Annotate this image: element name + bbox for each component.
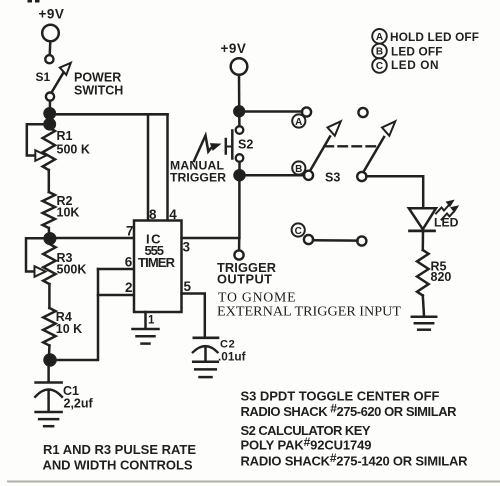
node: S3 pole2 upper contact (358, 108, 367, 117)
LED D1 (409, 208, 436, 231)
svg-text:+9V: +9V (221, 41, 247, 56)
svg-text:SWITCH: SWITCH (74, 84, 123, 98)
ground C2 (193, 362, 218, 377)
resistor R3 (pot) (43, 244, 55, 284)
wire (48, 101, 51, 124)
ground pin 1 (133, 329, 159, 344)
wire (238, 114, 241, 126)
svg-text:500K: 500K (57, 263, 87, 277)
resistor R5 (417, 250, 429, 296)
junction node supply (45, 108, 55, 118)
svg-text:OUTPUT: OUTPUT (217, 272, 272, 287)
junction node S2 bottom (235, 170, 245, 180)
svg-text:R1: R1 (57, 129, 73, 143)
capacitor C2 (193, 338, 218, 362)
legend node B (372, 44, 387, 59)
cut-off marks top edge (28, 0, 40, 3)
svg-text:+9V: +9V (39, 7, 65, 22)
svg-text:S3: S3 (325, 171, 340, 185)
svg-text:500 K: 500 K (57, 143, 90, 157)
scan artifact line bottom (8, 481, 500, 483)
svg-text:10 K: 10 K (56, 322, 82, 336)
svg-text:3: 3 (183, 240, 191, 255)
junction node R2/R3 (45, 233, 56, 244)
pot R1 arrow (35, 150, 46, 161)
node: S2 contact top (236, 126, 244, 134)
node label C (292, 223, 305, 237)
wire (422, 231, 425, 250)
wire +9V rail to pins 8,4 (50, 113, 168, 116)
pot R1 wiper loop (27, 124, 45, 155)
svg-text:C: C (295, 226, 302, 237)
svg-text:1: 1 (148, 315, 155, 327)
svg-text:POWER: POWER (74, 71, 121, 85)
node: C row right contact (357, 236, 366, 245)
wire (48, 284, 51, 308)
svg-text:5: 5 (184, 279, 192, 294)
svg-text:POLY PAK#92CU1749: POLY PAK#92CU1749 (241, 435, 372, 453)
svg-text:7: 7 (126, 224, 134, 239)
wire (238, 75, 241, 108)
svg-text:.01uf: .01uf (218, 350, 246, 364)
pot R3 arrow (35, 266, 46, 277)
svg-text:A: A (295, 117, 302, 128)
svg-text:S2: S2 (238, 138, 253, 152)
switch S1 arm (52, 63, 71, 93)
wire pin 4 (166, 114, 169, 220)
terminal +9V middle (231, 58, 248, 75)
svg-text:B: B (376, 47, 383, 58)
wire pin 1 (144, 312, 147, 329)
wire pin 5 to C2 (182, 294, 205, 338)
pot R3 wiper loop (26, 238, 45, 271)
svg-text:LED OFF: LED OFF (391, 45, 443, 59)
wire pin 3 (182, 237, 240, 240)
svg-text:820: 820 (431, 270, 452, 284)
wire node A row (239, 110, 302, 113)
node A terminal (302, 107, 311, 116)
resistor R1 (pot) (43, 128, 55, 171)
wire pin 6 (98, 268, 134, 271)
wire pin 8 (147, 114, 150, 220)
svg-text:6: 6 (125, 255, 133, 270)
ground R5 (412, 317, 436, 330)
terminal trigger output (234, 250, 243, 259)
pushbutton S2 actuator (226, 131, 233, 159)
wire pin 2 (98, 294, 134, 297)
svg-text:B: B (295, 164, 302, 175)
svg-text:AND WIDTH CONTROLS: AND WIDTH CONTROLS (43, 458, 193, 473)
node: S2 contact bottom (236, 154, 244, 162)
wire pin 7 (50, 237, 134, 240)
svg-text:EXTERNAL TRIGGER INPUT: EXTERNAL TRIGGER INPUT (217, 304, 402, 319)
capacitor C1 (35, 383, 62, 412)
wire C1 (47, 366, 50, 382)
junction node S2 top (234, 106, 244, 116)
wire (48, 346, 51, 361)
svg-text:RADIO SHACK#275-1420 OR SIMILA: RADIO SHACK#275-1420 OR SIMILAR (241, 451, 469, 469)
junction node R1 top (45, 119, 55, 129)
svg-text:2: 2 (125, 280, 133, 295)
switch S3 pole 2 arm (364, 121, 395, 171)
manual trigger arrow (194, 136, 222, 162)
svg-text:HOLD LED OFF: HOLD LED OFF (390, 30, 479, 44)
svg-text:TRIGGER: TRIGGER (170, 171, 226, 185)
wire (48, 170, 51, 192)
svg-text:R1 AND R3 PULSE RATE: R1 AND R3 PULSE RATE (43, 442, 196, 457)
wire C row (313, 239, 358, 242)
svg-text:TO GNOME: TO GNOME (218, 290, 296, 305)
wire (48, 228, 51, 239)
wire S2 to pin3 (238, 175, 241, 238)
label POWER SWITCH (74, 71, 123, 98)
svg-text:4: 4 (169, 207, 177, 222)
node B terminal / pole 1 pivot (304, 171, 313, 180)
svg-text:10K: 10K (57, 206, 80, 220)
junction node R4/C1 (45, 355, 56, 366)
svg-text:S3 DPDT TOGGLE CENTER OFF: S3 DPDT TOGGLE CENTER OFF (241, 389, 440, 404)
wire S3 to LED (366, 176, 423, 207)
ground C1 (36, 412, 62, 426)
wire trigger output stub (238, 238, 241, 250)
wire (238, 162, 241, 172)
node: S3 pole 2 pivot (357, 172, 366, 181)
svg-text:S1: S1 (36, 70, 51, 84)
resistor R2 (43, 192, 55, 228)
LED light arrows (436, 200, 459, 220)
node C terminal (304, 235, 313, 244)
terminal +9V left (42, 25, 59, 42)
IC U1 555 timer box (134, 221, 182, 313)
svg-text:A: A (376, 32, 383, 43)
resistor R4 (43, 308, 55, 346)
svg-text:2,2uf: 2,2uf (64, 397, 94, 411)
svg-text:TIMER: TIMER (138, 255, 176, 270)
svg-text:C: C (376, 61, 383, 72)
wire (48, 41, 51, 55)
wire (423, 296, 424, 317)
svg-text:LED: LED (434, 216, 459, 230)
node: switch S1 bottom contact (46, 93, 54, 101)
svg-text:8: 8 (149, 207, 157, 222)
node label B (292, 161, 305, 175)
svg-text:LED ON: LED ON (391, 58, 439, 72)
node label A (292, 114, 305, 128)
legend node A (372, 29, 387, 44)
wire junction to pins 6,2 riser (50, 269, 98, 360)
svg-text:RADIO SHACK #275-620 OR SIMILA: RADIO SHACK #275-620 OR SIMILAR (241, 402, 458, 420)
legend node C (372, 58, 387, 73)
node: switch S1 top contact (45, 55, 53, 63)
switch S3 pole 1 arm (311, 121, 341, 170)
wire node B row (240, 174, 305, 177)
switch S3 mechanical link (dashed) (325, 145, 380, 147)
